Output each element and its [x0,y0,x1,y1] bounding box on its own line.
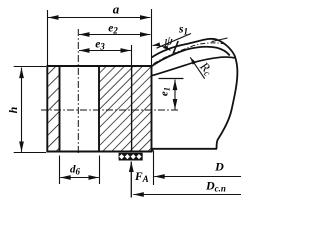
svg-text:a: a [113,2,120,17]
svg-text:e1: e1 [159,87,172,96]
wire horizontal centre plane chain line [41,109,179,111]
svg-text:s1: s1 [178,24,188,37]
wire left strip hatched section [47,66,59,152]
svg-text:e2: e2 [108,23,118,36]
node dimension h [14,66,46,68]
svg-text:FA: FA [134,171,149,184]
node dimension Dc.p [133,194,241,196]
svg-text:D: D [214,160,224,174]
wire extension line x=151 above body [151,9,153,66]
node dimension e2 [79,34,150,36]
node tooth root curve C3 [152,57,235,76]
wire s1 generator line [157,34,192,49]
wire extension line x=131.6 for e3 [131,45,133,66]
wire pitch arc dash-dot [154,43,225,64]
svg-text:e3: e3 [95,39,105,52]
wire rim bottom face [152,149,217,152]
svg-text:ψ: ψ [164,33,173,48]
node tooth band inner curve C2 [152,47,230,67]
node dimension a [48,17,150,19]
node dimension d6 [59,156,61,185]
wire s1 tick across band [173,41,178,53]
node psi angle arc [153,45,171,50]
node dimension e3 [79,50,131,52]
svg-text:d6: d6 [70,164,81,177]
wire seam between rim and centre [131,66,133,152]
svg-text:Dс.п: Dс.п [205,179,226,194]
label Rc [195,59,216,80]
node body outline [46,66,152,152]
node tooth band outer curve C1 [152,39,218,58]
svg-text:h: h [6,106,20,113]
node bolt nut block under rim [119,153,143,161]
node dimension e1 [159,78,184,80]
wire extension line x=47.3 above body [47,10,49,66]
wire central hub hatched section [99,66,152,152]
node right flank arc [217,40,238,149]
wire chamfer spur line [212,38,228,42]
wire bolt axis chain line [77,29,79,154]
node Rc radius leader [190,57,205,78]
node dimension D [153,151,155,186]
node force FA arrow [130,162,132,198]
